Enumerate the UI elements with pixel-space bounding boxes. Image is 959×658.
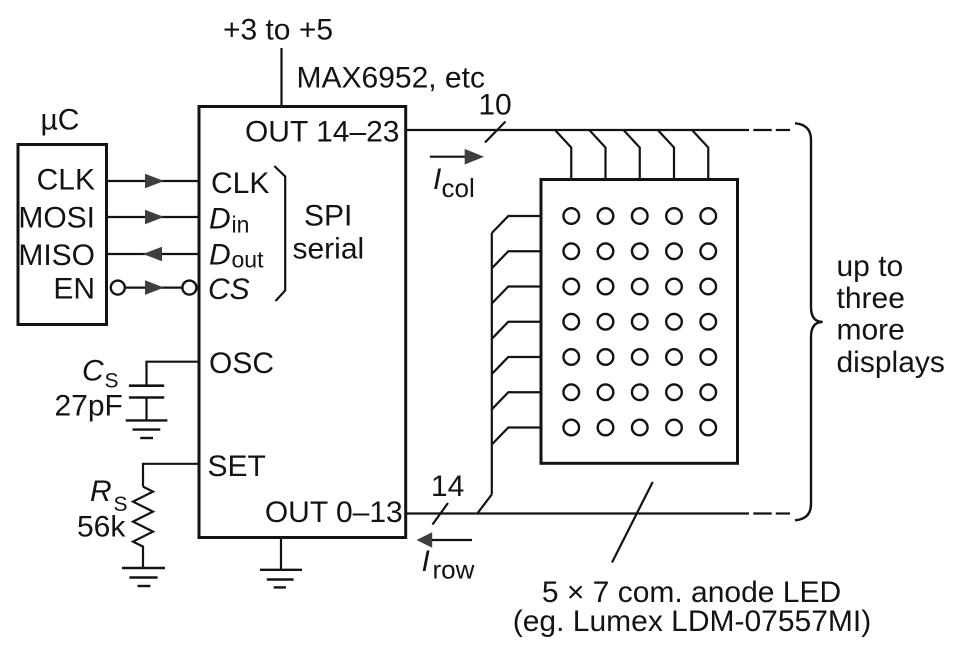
dashes bottom wire: [753, 512, 771, 514]
arrow on MISO wire: [143, 247, 162, 262]
row bus vertical: [491, 233, 493, 494]
svg-text:in: in: [232, 212, 250, 238]
svg-text:14: 14: [431, 470, 464, 503]
svg-text:C: C: [82, 355, 104, 388]
svg-text:27pF: 27pF: [55, 390, 123, 423]
microcontroller box U2: [18, 145, 107, 325]
svg-text:out: out: [232, 247, 265, 273]
chip ground wire: [280, 538, 282, 570]
svg-text:row: row: [433, 555, 475, 585]
svg-text:MOSI: MOSI: [18, 202, 95, 235]
svg-text:MAX6952, etc: MAX6952, etc: [297, 62, 485, 95]
svg-text:(eg. Lumex LDM-07557MI): (eg. Lumex LDM-07557MI): [513, 605, 871, 638]
dashes top wire: [753, 129, 771, 131]
svg-text:displays: displays: [837, 346, 945, 379]
driver IC U1 MAX6952: [199, 107, 406, 538]
LED dots 5x7: [563, 208, 716, 435]
svg-text:+3 to +5: +3 to +5: [223, 14, 333, 47]
svg-text:MISO: MISO: [18, 239, 95, 272]
column drop wires to display: [555, 130, 708, 180]
svg-text:CLK: CLK: [37, 164, 95, 197]
svg-text:R: R: [90, 475, 112, 508]
open circle EN right (CS): [182, 281, 196, 295]
svg-text:56k: 56k: [77, 511, 126, 544]
svg-text:col: col: [442, 173, 475, 203]
ground under chip: [260, 570, 302, 588]
svg-text:SET: SET: [208, 450, 266, 483]
wire SET to resistor: [143, 464, 199, 487]
row bus bottom diagonal to OUT 0-13 wire: [477, 494, 492, 513]
svg-text:I: I: [433, 163, 441, 196]
power wire +V: [280, 48, 282, 107]
wire OUT 0-13 bus: [406, 512, 749, 514]
brace SPI pins: [274, 166, 285, 301]
callout line to LED note: [612, 482, 653, 563]
LED display box DS1: [541, 180, 738, 464]
ground under capacitor: [126, 420, 168, 438]
capacitor C_S plates: [129, 384, 164, 387]
svg-text:CLK: CLK: [211, 167, 269, 200]
svg-text:10: 10: [478, 89, 511, 122]
arrow on CLK wire: [145, 174, 164, 189]
open circle EN left: [111, 281, 125, 295]
wire EN: [124, 287, 183, 289]
svg-text:up to: up to: [837, 250, 904, 283]
svg-text:EN: EN: [53, 273, 95, 306]
svg-text:OUT 0–13: OUT 0–13: [265, 496, 403, 529]
row branch wires: [492, 216, 541, 445]
wire MOSI: [107, 216, 200, 218]
svg-text:D: D: [209, 202, 231, 235]
wire OUT 14-23 bus: [406, 129, 749, 131]
arrow I_row: [432, 539, 472, 541]
wire CLK: [107, 180, 200, 182]
arrow on MOSI wire: [145, 210, 164, 225]
resistor R_S zigzag: [133, 487, 153, 568]
ground under resistor: [122, 568, 165, 586]
arrow on EN wire: [145, 280, 164, 295]
svg-text:D: D: [209, 239, 231, 272]
svg-text:three: three: [837, 282, 905, 315]
bus width slash 14: [433, 503, 449, 525]
wire capacitor to ground: [145, 398, 147, 421]
svg-text:µC: µC: [41, 104, 80, 137]
bus width slash 10: [485, 122, 506, 143]
svg-text:SPI: SPI: [304, 199, 352, 232]
svg-text:CS: CS: [208, 273, 250, 306]
svg-text:OSC: OSC: [209, 347, 274, 380]
brace up to three more displays: [795, 123, 823, 520]
svg-text:OUT 14–23: OUT 14–23: [245, 116, 400, 149]
svg-text:serial: serial: [293, 233, 365, 266]
svg-text:more: more: [837, 314, 905, 347]
wire MISO: [107, 253, 200, 255]
svg-text:I: I: [422, 545, 430, 578]
wire OSC to capacitor: [147, 362, 200, 386]
arrow I_col: [430, 156, 470, 158]
